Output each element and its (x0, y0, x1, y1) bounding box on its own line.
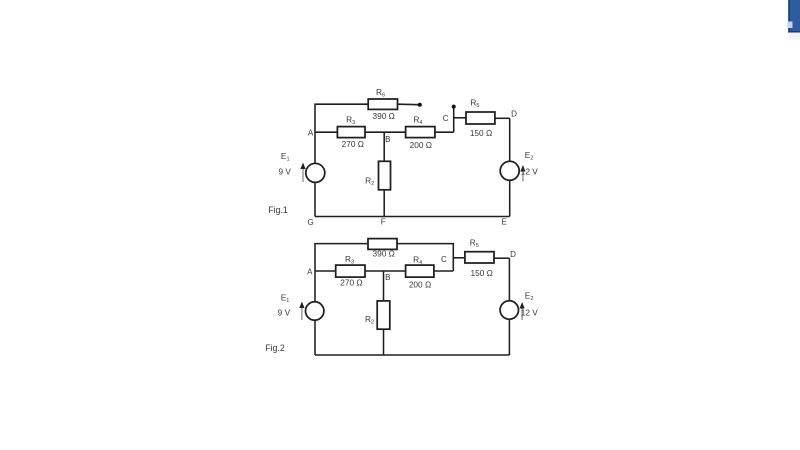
svg-text:Fig.1: Fig.1 (268, 205, 288, 215)
svg-text:9 V: 9 V (278, 167, 291, 177)
svg-text:270 Ω: 270 Ω (340, 278, 362, 288)
svg-text:A: A (307, 268, 313, 277)
svg-text:270 Ω: 270 Ω (342, 139, 364, 149)
svg-text:200 Ω: 200 Ω (409, 280, 431, 290)
svg-text:390 Ω: 390 Ω (373, 249, 395, 259)
svg-text:B: B (385, 135, 390, 144)
svg-text:A: A (308, 128, 314, 137)
svg-text:D: D (511, 110, 517, 119)
svg-text:12 V: 12 V (521, 166, 539, 176)
svg-text:150 Ω: 150 Ω (470, 128, 492, 138)
svg-text:390 Ω: 390 Ω (373, 111, 395, 121)
svg-text:Fig.2: Fig.2 (265, 343, 285, 353)
svg-text:B: B (385, 273, 390, 282)
svg-text:12 V: 12 V (521, 308, 539, 318)
svg-text:9 V: 9 V (278, 308, 291, 318)
svg-text:C: C (443, 114, 449, 123)
svg-text:150 Ω: 150 Ω (471, 268, 493, 278)
svg-text:200 Ω: 200 Ω (410, 140, 432, 150)
svg-text:F: F (381, 218, 386, 227)
svg-text:C: C (441, 255, 447, 264)
svg-text:D: D (510, 250, 516, 259)
svg-text:E: E (502, 218, 507, 227)
svg-text:G: G (307, 218, 313, 227)
